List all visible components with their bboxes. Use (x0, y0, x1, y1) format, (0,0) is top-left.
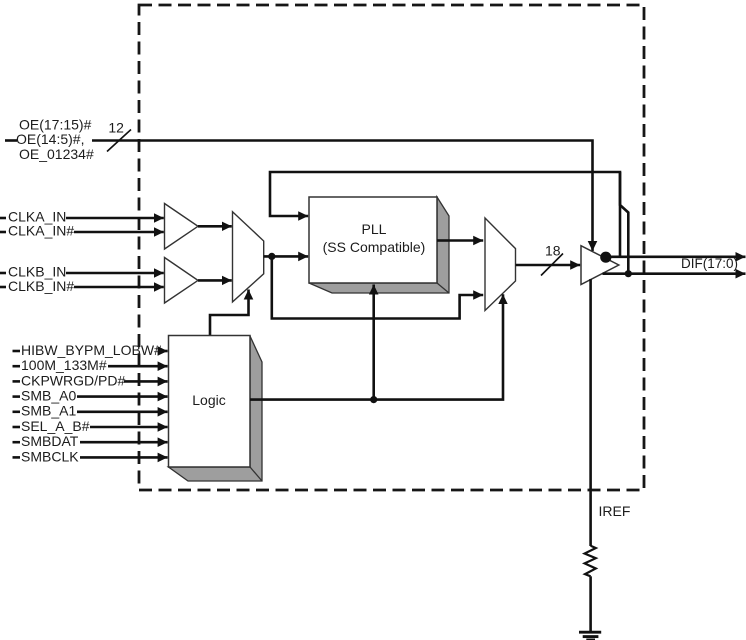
svg-text:SMB_A1: SMB_A1 (21, 403, 76, 419)
wire resistor to ground (589, 576, 592, 632)
resistor R1 zigzag (585, 546, 596, 577)
wire CLKA_IN# to buffer (74, 231, 164, 234)
wire feedback top (output to PLL) (270, 172, 620, 257)
wire CLKB_IN to buffer (66, 272, 164, 275)
wire CLKA_IN to buffer (66, 217, 164, 220)
svg-text:CLKA_IN#: CLKA_IN# (8, 223, 74, 239)
ground (579, 631, 601, 634)
PLL block U1 (309, 197, 437, 283)
wire CKPWRGD stub dash (13, 380, 21, 383)
node junction dot mux1 output (268, 253, 275, 260)
wire SMB_A1 stub dash (13, 410, 21, 413)
wire HIBW to logic (160, 350, 168, 353)
wire HIBW stub dash (13, 350, 21, 353)
wire SMB_A0 stub dash (13, 395, 21, 398)
svg-text:SMBCLK: SMBCLK (21, 448, 79, 464)
svg-text:PLL: PLL (362, 221, 387, 237)
wire bypass mux1 to mux2 (272, 256, 483, 318)
wire buffer A to mux1 (198, 225, 232, 228)
wire CLKB_IN# to buffer (74, 286, 164, 289)
input buffer B triangle (165, 258, 199, 304)
wire 100M stub dash (13, 365, 21, 368)
wire SMBDAT to logic (80, 441, 168, 444)
node feedback tap dot on DIF (600, 252, 611, 263)
svg-text:OE_01234#: OE_01234# (19, 146, 94, 162)
wire CKPWRGD to logic (124, 380, 168, 383)
wire IREF from buffer to resistor (589, 279, 592, 546)
wire PLL output to mux2 (449, 239, 483, 242)
wire mux2 output to output buffer (516, 264, 581, 267)
wire CLKA_IN stub dash (0, 217, 6, 220)
mux2 trapezoid (485, 218, 516, 311)
wire CLKB_IN# stub dash (0, 286, 6, 289)
svg-text:IREF: IREF (599, 503, 631, 519)
svg-text:CLKB_IN#: CLKB_IN# (8, 278, 74, 294)
wire feedback from DIF# with jog (620, 172, 628, 274)
wire SMBCLK stub dash (13, 456, 21, 459)
mux1 trapezoid (233, 212, 264, 302)
dashed chip boundary box (139, 5, 644, 490)
bus slash 18 (541, 254, 563, 276)
svg-text:SMBDAT: SMBDAT (21, 433, 79, 449)
wire OE stub dash (5, 139, 17, 142)
svg-text:DIF(17:0): DIF(17:0) (681, 256, 738, 271)
node OE label block (16, 117, 94, 162)
svg-text:(SS Compatible): (SS Compatible) (323, 239, 426, 255)
wire logic output to mux2 select (250, 294, 503, 399)
svg-text:12: 12 (108, 120, 124, 136)
wire DIF true output (606, 255, 746, 258)
wire select logic to mux1 (210, 290, 249, 337)
Logic block 3D shadow (169, 336, 263, 481)
wire CLKA_IN# stub dash (0, 231, 6, 234)
wire CLKB_IN stub dash (0, 272, 6, 275)
svg-text:Logic: Logic (192, 392, 225, 408)
bus slash 12 (107, 130, 131, 152)
wire 100M to logic (108, 365, 168, 368)
svg-text:SMB_A0: SMB_A0 (21, 388, 76, 404)
svg-text:OE(14:5)#,: OE(14:5)#, (16, 131, 84, 147)
input buffer A triangle (165, 204, 199, 250)
PLL block 3D shadow (309, 197, 449, 293)
node feedback tap dot on DIF# (625, 270, 632, 277)
wire SMB_A0 to logic (77, 395, 168, 398)
wire SEL_A_B# stub dash (13, 426, 21, 429)
node junction dot logic line (370, 396, 377, 403)
wire DIF complement output (603, 272, 746, 275)
svg-text:HIBW_BYPM_LOBW#: HIBW_BYPM_LOBW# (21, 342, 162, 358)
svg-text:SEL_A_B#: SEL_A_B# (21, 418, 90, 434)
Logic block U2 (169, 336, 251, 468)
wire SEL_A_B# to logic (90, 426, 168, 429)
svg-text:CKPWRGD/PD#: CKPWRGD/PD# (21, 372, 125, 388)
output buffer triangle (581, 246, 619, 285)
svg-text:18: 18 (545, 243, 561, 259)
wire mux1 output to PLL (264, 255, 309, 258)
wire SMBCLK to logic (80, 456, 168, 459)
wire OE bus line to output buffer (92, 141, 593, 252)
svg-text:100M_133M#: 100M_133M# (21, 357, 107, 373)
wire SMBDAT stub dash (13, 441, 21, 444)
wire feedback logic line to PLL bottom (372, 285, 375, 400)
wire SMB_A1 to logic (77, 410, 168, 413)
wire buffer B to mux1 (198, 279, 232, 282)
